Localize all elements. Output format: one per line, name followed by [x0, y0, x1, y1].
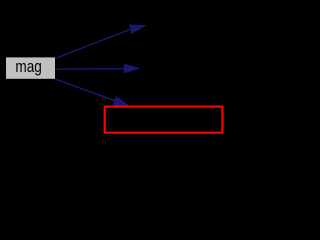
svg-text:mag: mag [15, 57, 41, 76]
